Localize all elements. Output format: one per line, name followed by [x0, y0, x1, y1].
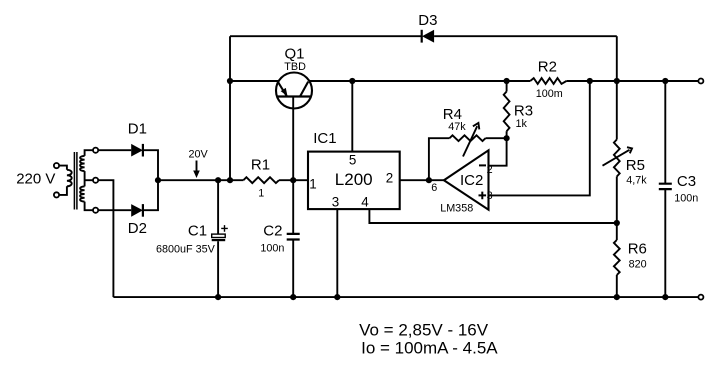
svg-text:4: 4: [361, 194, 369, 209]
capacitor C2: [287, 180, 300, 297]
terminal secondary center tap: [93, 178, 98, 183]
svg-text:C2: C2: [263, 223, 282, 240]
wire D1 anode: [98, 149, 131, 151]
svg-text:4,7k: 4,7k: [626, 175, 647, 187]
wire left riser from input node to top rail: [229, 36, 231, 180]
terminal output positive: [698, 79, 703, 84]
wire collector to R2: [309, 80, 530, 82]
wire R2 to output terminal: [566, 80, 698, 82]
terminal secondary bottom: [93, 208, 98, 213]
svg-text:R5: R5: [626, 157, 645, 174]
svg-text:D2: D2: [128, 220, 147, 237]
svg-text:5: 5: [349, 153, 356, 168]
node R3 top on collector rail: [504, 78, 510, 84]
svg-text:IC1: IC1: [313, 130, 336, 147]
capacitor C1: [212, 180, 228, 297]
node R4 tap on pin2 wire: [426, 177, 432, 183]
transistor Q1: [276, 73, 312, 109]
svg-text:R6: R6: [628, 241, 647, 258]
node C1 bottom on ground rail: [215, 294, 221, 300]
svg-text:3: 3: [332, 194, 339, 209]
wire non-inverting input to R2 right node: [489, 81, 590, 195]
wire rectifier cathode join: [143, 150, 158, 210]
svg-text:R2: R2: [538, 59, 557, 76]
wire L200 pin 4 to R5/R6 junction: [369, 209, 616, 223]
node R5/R6/pin4 junction: [614, 220, 620, 226]
minus sign inverting input: [479, 164, 486, 166]
svg-text:TBD: TBD: [284, 61, 306, 73]
node C1 top: [215, 177, 221, 183]
diode D1: [131, 144, 143, 157]
arrow 20V pointing to rail: [193, 161, 200, 179]
svg-text:R1: R1: [251, 157, 270, 174]
node rectifier output: [155, 177, 161, 183]
resistor R2: [530, 78, 566, 84]
wire L200 pin 3 to ground: [336, 209, 338, 297]
wire inverting input to R3/R4 node: [489, 138, 507, 166]
resistor R6: [614, 223, 620, 297]
svg-text:D3: D3: [418, 12, 437, 29]
wire bottom ground rail: [113, 296, 698, 298]
wire emitter: [230, 80, 279, 82]
svg-text:220 V: 220 V: [16, 171, 55, 188]
svg-text:47k: 47k: [448, 121, 466, 133]
op-amp IC2: [444, 150, 489, 209]
wire center tap to ground rail: [98, 180, 113, 297]
resistor R3: [504, 81, 510, 138]
svg-text:IC2: IC2: [460, 172, 483, 189]
regulator IC1 L200 box: [308, 152, 400, 210]
svg-text:LM358: LM358: [440, 202, 473, 214]
svg-text:1k: 1k: [516, 118, 528, 130]
svg-text:2: 2: [386, 171, 393, 186]
terminal secondary top: [93, 148, 98, 153]
wire L200 pin 2 to op-amp: [400, 179, 444, 181]
wire main rail to R1: [158, 179, 243, 181]
diode D2: [131, 204, 143, 217]
svg-text:100n: 100n: [674, 192, 698, 204]
svg-text:Io = 100mA - 4.5A: Io = 100mA - 4.5A: [361, 339, 498, 358]
svg-text:820: 820: [629, 258, 647, 270]
node R6 bottom on ground rail: [614, 294, 620, 300]
resistor R1: [243, 177, 279, 183]
svg-text:L200: L200: [335, 170, 373, 189]
node top rail / R5 top: [614, 78, 620, 84]
node base / C2 / pin1: [290, 177, 296, 183]
transformer T1: [59, 150, 93, 210]
svg-text:1: 1: [258, 187, 264, 199]
node R2 right / op-amp +: [587, 78, 593, 84]
svg-text:6800uF 35V: 6800uF 35V: [156, 243, 216, 255]
wire right riser top rail to output rail: [616, 36, 618, 81]
diode D3: [422, 30, 434, 43]
svg-text:20V: 20V: [189, 148, 209, 160]
wire top rail: [230, 35, 617, 37]
resistor R5 (trimmer): [603, 81, 633, 223]
svg-text:Vo = 2,85V - 16V: Vo = 2,85V - 16V: [359, 321, 489, 340]
node riser bottom: [227, 177, 233, 183]
wire R1 to L200 pin1: [279, 179, 308, 181]
capacitor C3: [659, 81, 672, 297]
wire R4 to R3 junction: [486, 137, 507, 139]
svg-text:1: 1: [309, 176, 316, 191]
plus sign non-inverting input: [479, 192, 487, 200]
wire Q1 base lead: [292, 97, 294, 181]
svg-text:D1: D1: [128, 121, 147, 138]
node R3 bottom / R4 / pin2: [504, 135, 510, 141]
terminal primary top: [54, 163, 59, 168]
node emitter branch: [227, 78, 233, 84]
wire R4 branch riser: [429, 138, 450, 180]
node C3 top: [662, 78, 668, 84]
resistor R4 (trimmer): [450, 123, 486, 157]
node C2 bottom on ground rail: [290, 294, 296, 300]
svg-text:C3: C3: [677, 173, 696, 190]
svg-text:100m: 100m: [536, 88, 563, 100]
node pin5 on collector rail: [349, 78, 355, 84]
terminal primary bottom: [54, 192, 59, 197]
svg-text:C1: C1: [188, 223, 207, 240]
wire L200 pin 5 riser: [351, 81, 353, 152]
wire D2 anode: [98, 209, 131, 211]
node pin3 on ground rail: [334, 294, 340, 300]
terminal output negative: [698, 295, 703, 300]
svg-text:100n: 100n: [260, 243, 284, 255]
node C3 bottom: [662, 294, 668, 300]
svg-text:6: 6: [431, 182, 437, 194]
